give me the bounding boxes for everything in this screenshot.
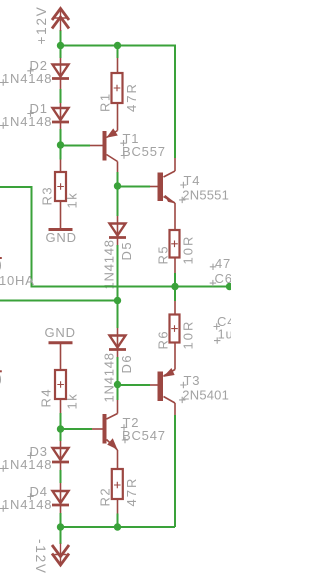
svg-text:1N4148: 1N4148 (102, 352, 117, 402)
svg-text:GND: GND (46, 230, 77, 245)
resistor R2 (112, 469, 123, 527)
origin cross C4 value (214, 337, 220, 343)
wire: base of T2 (61, 428, 93, 430)
svg-text:1N4148: 1N4148 (2, 457, 52, 472)
node: bottom rail left (57, 523, 64, 530)
pin leads D2/D1 (60, 58, 62, 129)
T2 collector (117, 400, 119, 414)
pin: R4 bottom lead (60, 399, 62, 413)
T2 emitter diagonal (107, 440, 118, 451)
origin cross R4 (57, 381, 64, 388)
svg-text:10HA: 10HA (0, 273, 35, 288)
pin: T2 emitter to R2 (117, 450, 119, 469)
svg-text:C6: C6 (215, 271, 232, 286)
origin cross T4 value (179, 197, 185, 203)
-12V supply symbol (52, 544, 69, 566)
node: T4 base node (114, 182, 121, 189)
wire: input from left to bias chain (0, 300, 118, 302)
svg-text:1u: 1u (218, 327, 232, 342)
wire: -12V stub (60, 527, 62, 544)
resistor R6 (170, 287, 180, 370)
node: output rail at R5/R6 (171, 283, 178, 290)
svg-text:GND: GND (45, 325, 76, 340)
IC pin fragment 2 at left edge (0, 370, 2, 372)
svg-text:R6: R6 (156, 330, 171, 350)
wire: bottom rail (61, 526, 176, 528)
pin: R3 bottom lead to GND (60, 201, 62, 228)
T1 emitter arrow (PNP into bar) (108, 129, 118, 137)
resistor R5 (170, 203, 180, 287)
T3 collector diagonal (164, 397, 176, 404)
origin cross T1 (120, 140, 126, 146)
pin: T1 collector lead (117, 162, 119, 173)
svg-text:47R: 47R (124, 477, 139, 507)
diode D6 (109, 336, 126, 350)
pin leads D3/D4 (60, 441, 62, 513)
origin cross T3 value (179, 397, 185, 403)
svg-text:R3: R3 (40, 186, 55, 206)
diode D2 (52, 65, 69, 79)
svg-text:10R: 10R (181, 320, 196, 350)
node: junction +12V rail at R1 (114, 42, 121, 49)
svg-text:0: 0 (0, 372, 2, 389)
transistor T1 BC557 (103, 103, 118, 162)
wire: left column D2/D1 chain (60, 46, 62, 146)
transistor T4 2N5551 (158, 158, 176, 203)
T4 emitter arrow (NPN out) (165, 195, 175, 202)
pin: T2 base lead (92, 428, 103, 430)
svg-text:T4: T4 (184, 173, 201, 188)
node: T3 base node (114, 381, 121, 388)
+12V supply symbol (52, 9, 69, 32)
wire: top rail from +12V to right corner and down (61, 46, 176, 159)
origin cross R3 (57, 183, 64, 190)
wire: IC output to output rail (0, 187, 231, 287)
IC fragment at left edge (0, 257, 2, 259)
wire: +12V stub (60, 30, 62, 46)
origin cross C4 (214, 323, 220, 329)
pin: R1 bottom to T1 emitter (117, 103, 119, 131)
svg-text:1k: 1k (65, 393, 80, 410)
node: bottom rail at R2 (114, 523, 121, 530)
svg-text:R4: R4 (39, 388, 54, 408)
diode D1 (52, 108, 69, 122)
T2 base bar (103, 414, 107, 444)
pin: R1 top lead (117, 46, 119, 59)
pin: R5 bottom (174, 258, 176, 274)
svg-text:2N5401: 2N5401 (182, 388, 229, 403)
node: T1 base junction (57, 141, 64, 148)
svg-text:1N4148: 1N4148 (2, 71, 52, 86)
origin cross T2 (121, 424, 127, 430)
origin cross C6 (210, 280, 216, 286)
wire: D5/D6 bias chain vertical (117, 186, 119, 400)
svg-text:+12V: +12V (34, 5, 49, 44)
wire: base of T1 (61, 145, 91, 147)
wire: T2 collector from node (117, 385, 119, 401)
wire: R3 top (60, 145, 62, 160)
origin cross C6 value (210, 264, 216, 270)
T4 emitter diagonal (164, 197, 176, 204)
svg-text:1N4148: 1N4148 (2, 497, 52, 512)
wire: T1 collector to node (117, 172, 119, 186)
wire: T3 base (118, 384, 151, 386)
origin cross T2 value (122, 437, 128, 443)
svg-text:47R: 47R (124, 82, 139, 112)
svg-text:D5: D5 (119, 241, 134, 261)
node: input junction (114, 297, 121, 304)
svg-text:BC557: BC557 (122, 144, 166, 159)
T3 base bar (158, 372, 164, 402)
node: output rail at C6 (226, 283, 233, 290)
T1 collector diagonal (107, 155, 118, 162)
T3 emitter arrow (PNP into bar) (164, 369, 174, 376)
node: junction +12V rail left (57, 42, 64, 49)
T3 emitter diagonal (164, 370, 176, 377)
svg-text:1N4148: 1N4148 (2, 114, 52, 129)
resistor R4 (55, 370, 66, 399)
T4 collector (174, 158, 176, 171)
wire: left column D3/D4 chain (60, 429, 62, 527)
resistor R3 (55, 172, 66, 201)
svg-text:R2: R2 (98, 487, 113, 507)
svg-text:-12V: -12V (33, 539, 48, 575)
ground GND (top) (49, 228, 73, 231)
pin: T1 base lead (90, 145, 103, 147)
svg-text:2N5551: 2N5551 (182, 188, 229, 203)
pin: R2 bottom (117, 499, 119, 514)
svg-text:BC547: BC547 (122, 428, 166, 443)
origin cross T1 value (121, 152, 127, 158)
T2 emitter arrow (NPN out) (108, 439, 117, 448)
node: T2 base junction (57, 425, 64, 432)
wire: T3 collector down to bottom rail (174, 415, 176, 527)
svg-text:T3: T3 (184, 373, 201, 388)
diode D5 (109, 224, 126, 238)
T1 base bar (103, 131, 107, 161)
svg-text:47: 47 (215, 256, 231, 271)
pin: GND to R4 (60, 343, 62, 370)
T4 base bar (158, 173, 164, 202)
svg-text:D6: D6 (119, 354, 134, 374)
wire: R4 to T2 base node (60, 413, 62, 429)
svg-text:R5: R5 (156, 245, 171, 265)
transistor T2 BC547 (103, 400, 118, 469)
transistor T3 2N5401 (158, 369, 176, 415)
svg-text:10R: 10R (181, 235, 196, 265)
pin: T4 base lead (150, 186, 158, 188)
resistor R1 (112, 46, 123, 104)
svg-text:1N4148: 1N4148 (102, 239, 117, 289)
pin: T3 base lead (150, 384, 158, 386)
origin cross T4 (180, 182, 186, 188)
svg-text:R1: R1 (98, 92, 113, 112)
origin crosses diode labels (27, 68, 33, 74)
pin: R6 bottom to T3 emitter (174, 343, 176, 370)
diode D3 (52, 448, 69, 462)
wire: T4 base (118, 186, 151, 188)
pin leads D5/D6 (117, 216, 119, 357)
pin: R3 top lead (60, 160, 62, 173)
diode D4 (52, 491, 69, 505)
svg-text:1k: 1k (65, 192, 80, 209)
pin: T4 emitter to R5 (174, 203, 176, 230)
origin cross T3 (180, 382, 186, 388)
pin: R6 top (174, 287, 176, 302)
